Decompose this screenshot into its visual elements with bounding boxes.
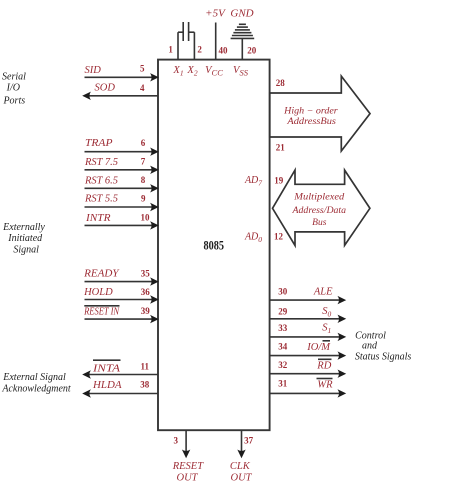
svg-text:and: and	[362, 341, 378, 352]
svg-text:31: 31	[278, 378, 288, 388]
svg-text:10: 10	[141, 213, 151, 223]
svg-text:OUT: OUT	[230, 473, 252, 484]
svg-text:I/O: I/O	[6, 82, 20, 93]
svg-text:RD: RD	[316, 360, 331, 371]
svg-text:OUT: OUT	[176, 473, 198, 484]
svg-text:Bus: Bus	[312, 218, 327, 228]
svg-text:3: 3	[174, 436, 179, 446]
svg-text:X1: X1	[172, 65, 183, 78]
svg-text:External Signal: External Signal	[2, 372, 66, 383]
svg-text:40: 40	[219, 46, 229, 56]
svg-text:6: 6	[141, 138, 146, 148]
svg-text:AddressBus: AddressBus	[286, 117, 336, 127]
svg-text:Acknowledgment: Acknowledgment	[1, 384, 71, 395]
svg-text:1: 1	[168, 45, 173, 55]
svg-text:34: 34	[278, 342, 288, 352]
svg-text:HLDA: HLDA	[92, 380, 122, 391]
svg-text:38: 38	[140, 380, 150, 390]
svg-text:IO/M: IO/M	[306, 342, 331, 353]
svg-text:SID: SID	[85, 65, 102, 76]
svg-text:Externally: Externally	[2, 222, 45, 233]
svg-text:CLK: CLK	[230, 461, 251, 472]
svg-text:4: 4	[140, 83, 145, 93]
svg-text:37: 37	[244, 436, 254, 446]
svg-text:12: 12	[274, 231, 284, 241]
svg-text:Signal: Signal	[13, 245, 39, 256]
svg-text:+5V: +5V	[205, 7, 226, 19]
svg-text:33: 33	[278, 323, 288, 333]
svg-text:32: 32	[278, 360, 288, 370]
svg-text:39: 39	[141, 306, 151, 316]
svg-text:28: 28	[276, 78, 286, 88]
svg-text:WR: WR	[317, 380, 333, 391]
svg-text:30: 30	[278, 286, 288, 296]
svg-text:GND: GND	[230, 7, 253, 19]
svg-text:SOD: SOD	[95, 83, 116, 94]
svg-text:35: 35	[141, 268, 151, 278]
svg-text:READY: READY	[83, 269, 120, 280]
svg-text:Multiplexed: Multiplexed	[293, 193, 344, 203]
svg-text:TRAP: TRAP	[85, 138, 113, 149]
svg-text:VCC: VCC	[205, 65, 223, 78]
svg-text:21: 21	[276, 142, 286, 152]
svg-text:9: 9	[141, 193, 146, 203]
svg-text:AD7: AD7	[244, 175, 262, 188]
svg-text:7: 7	[141, 157, 146, 167]
svg-text:Status Signals: Status Signals	[355, 352, 412, 363]
svg-text:RST 5.5: RST 5.5	[84, 194, 118, 205]
svg-text:VSS: VSS	[233, 65, 249, 78]
svg-text:36: 36	[141, 287, 151, 297]
svg-text:X2: X2	[186, 65, 197, 78]
svg-text:INTA: INTA	[92, 363, 121, 374]
svg-text:Serial: Serial	[2, 71, 26, 82]
svg-text:RESET IN: RESET IN	[83, 307, 120, 318]
svg-text:8: 8	[141, 175, 146, 185]
svg-text:5: 5	[140, 63, 145, 73]
svg-text:HOLD: HOLD	[83, 287, 113, 298]
svg-text:Address/Data: Address/Data	[292, 206, 347, 216]
svg-text:20: 20	[247, 46, 257, 56]
svg-text:19: 19	[274, 176, 284, 186]
svg-text:RST 6.5: RST 6.5	[84, 176, 118, 187]
svg-text:S1: S1	[322, 323, 331, 336]
svg-text:High − order: High − order	[283, 106, 338, 116]
svg-text:RESET: RESET	[172, 461, 204, 472]
svg-text:Initiated: Initiated	[7, 233, 43, 244]
svg-text:11: 11	[141, 362, 150, 372]
svg-text:Ports: Ports	[2, 95, 25, 106]
svg-text:8085: 8085	[203, 238, 224, 252]
svg-text:ALE: ALE	[313, 287, 333, 298]
svg-text:RST 7.5: RST 7.5	[84, 157, 118, 168]
svg-text:2: 2	[197, 45, 202, 55]
svg-text:INTR: INTR	[85, 213, 111, 224]
svg-text:29: 29	[278, 307, 288, 317]
svg-text:AD0: AD0	[244, 232, 262, 245]
svg-text:S0: S0	[322, 306, 331, 319]
